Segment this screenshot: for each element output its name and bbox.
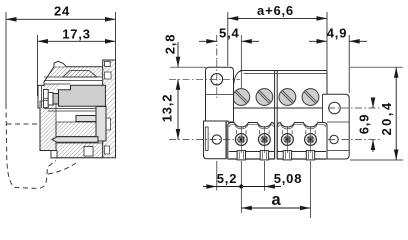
svg-text:24: 24 [54, 4, 70, 19]
svg-text:5,4: 5,4 [219, 25, 239, 40]
svg-text:a+6,6: a+6,6 [257, 3, 294, 18]
svg-text:5,2: 5,2 [217, 171, 237, 186]
svg-text:6,9: 6,9 [357, 114, 372, 134]
svg-text:2,8: 2,8 [163, 34, 178, 54]
svg-text:20,4: 20,4 [379, 101, 394, 136]
svg-text:4,9: 4,9 [327, 25, 347, 40]
svg-text:a: a [272, 191, 282, 209]
svg-text:5,08: 5,08 [274, 171, 303, 186]
svg-text:17,3: 17,3 [62, 27, 91, 42]
svg-text:13,2: 13,2 [160, 94, 175, 123]
